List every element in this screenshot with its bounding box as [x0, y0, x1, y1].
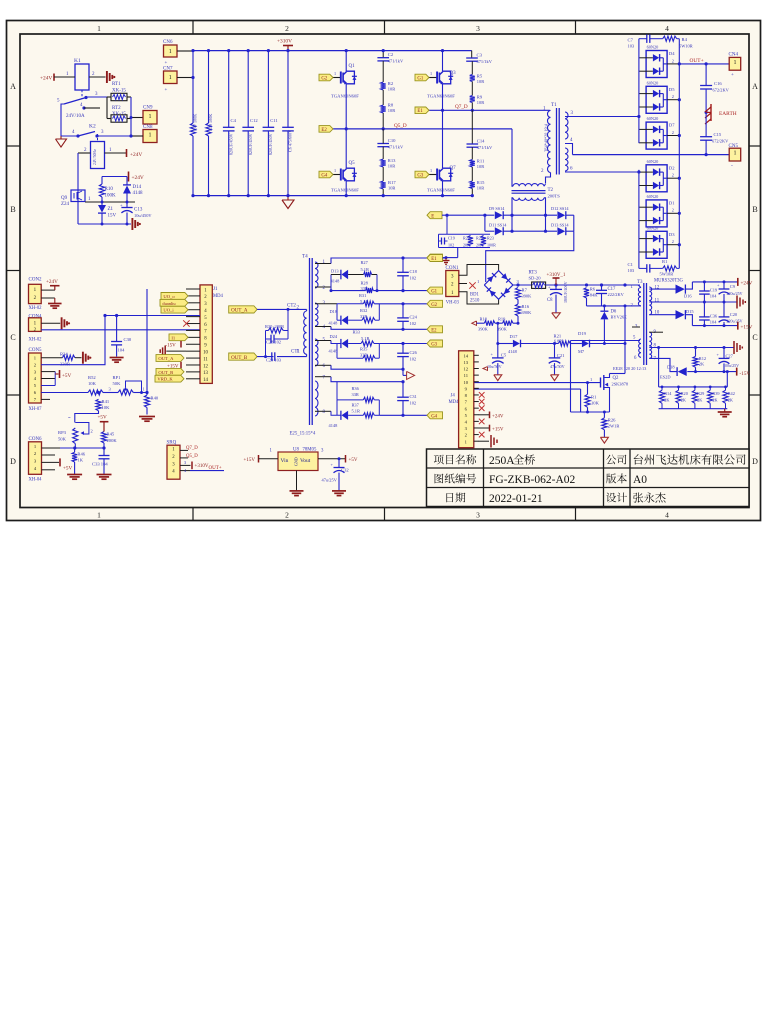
svg-text:J1: J1: [213, 287, 218, 292]
power +24V at J4 pin5: [479, 414, 490, 416]
svg-text:C: C: [10, 333, 15, 342]
svg-text:D1: D1: [669, 201, 675, 206]
svg-text:G4: G4: [431, 414, 437, 419]
svg-text:390K: 390K: [478, 327, 489, 332]
wire CON6 pin4: [42, 469, 56, 471]
T4 secondary S1: [315, 262, 318, 288]
svg-text:R37: R37: [352, 403, 360, 408]
svg-text:+15V: +15V: [741, 324, 753, 330]
svg-text:T4: T4: [302, 254, 308, 260]
rail E2 gate drive: [315, 326, 331, 328]
svg-text:=: =: [68, 415, 71, 420]
bleeder column R49 100K: [208, 51, 210, 123]
svg-text:-15V: -15V: [740, 371, 751, 377]
svg-text:C15: C15: [714, 132, 722, 137]
right bridge leg wire: [442, 51, 444, 72]
svg-text:4148: 4148: [331, 279, 341, 284]
power +24V at K2 coil: [126, 149, 128, 157]
wires CON5 pins 3-5 to +5V: [41, 371, 55, 373]
svg-text:G1: G1: [431, 290, 437, 295]
wire divider to D17 row: [497, 323, 499, 358]
svg-text:G2: G2: [321, 76, 327, 81]
svg-text:TGAN60N60F: TGAN60N60F: [331, 94, 359, 99]
svg-text:C33 104: C33 104: [92, 462, 108, 467]
right output bus of rectifiers: [678, 39, 680, 269]
capacitor C9 220u/25V: [723, 282, 725, 289]
IGBT Q1 TGAN60N60F: [333, 77, 341, 79]
svg-text:MD4: MD4: [213, 294, 224, 299]
rail G4 gate drive: [379, 414, 427, 416]
svg-text:G4: G4: [321, 173, 327, 178]
svg-text:2K: 2K: [664, 397, 670, 402]
MOSFET Q2 2SK3878: [600, 378, 602, 388]
power +24V at CON2: [41, 289, 55, 291]
svg-text:47u/50V: 47u/50V: [550, 364, 565, 369]
wire K1 pin1: [54, 76, 75, 78]
svg-text:33R: 33R: [352, 392, 359, 397]
dashed link K1 to contact: [81, 90, 83, 99]
svg-text:R25: R25: [476, 236, 483, 241]
svg-text:C: C: [752, 333, 757, 342]
svg-text:XH-07: XH-07: [29, 407, 43, 412]
net flag OUT_A mid: [229, 306, 257, 313]
svg-text:220u/25V: 220u/25V: [727, 318, 743, 323]
svg-text:1: 1: [149, 133, 152, 139]
net flag G3: [427, 340, 443, 347]
svg-text:10K: 10K: [591, 401, 600, 406]
wire R41 to RP3: [75, 411, 99, 423]
svg-text:200TS: 200TS: [548, 194, 561, 199]
svg-text:5.1R: 5.1R: [361, 336, 369, 341]
svg-text:10R: 10R: [477, 79, 484, 84]
svg-text:+15V: +15V: [244, 458, 256, 463]
right half-bridge output rail Q7_D: [429, 109, 550, 111]
capacitor C15 672/2KV: [705, 112, 707, 136]
svg-text:2W1R: 2W1R: [608, 424, 620, 429]
T4 primary winding: [304, 311, 307, 354]
svg-text:471/1kV: 471/1kV: [477, 59, 493, 64]
svg-text:C31: C31: [410, 394, 417, 399]
svg-text:R11: R11: [477, 159, 485, 164]
svg-text:C4: C4: [231, 118, 237, 123]
+24V output rail: [692, 281, 737, 283]
svg-text:K1: K1: [74, 58, 81, 64]
svg-text:1: 1: [733, 60, 736, 66]
svg-text:102: 102: [448, 243, 454, 248]
rail G3 to flag: [379, 343, 427, 345]
svg-text:2: 2: [285, 511, 289, 520]
net flag OUT_B mid: [229, 353, 257, 360]
svg-text:+24V: +24V: [492, 414, 504, 419]
svg-text:FG-ZKB-062-A02: FG-ZKB-062-A02: [489, 474, 575, 486]
svg-text:R28: R28: [361, 281, 369, 286]
capacitor C6 475UF/450V: [287, 51, 289, 128]
source wire from J4 pin9: [474, 388, 581, 390]
svg-text:60N20: 60N20: [647, 45, 659, 50]
net flag E1 aux: [427, 254, 443, 261]
bleeder rail top: [658, 348, 660, 387]
svg-text:390K: 390K: [522, 310, 533, 315]
wire CON6 pin1: [42, 447, 61, 449]
svg-text:10: 10: [203, 350, 208, 355]
capacitor C18 102: [401, 256, 404, 259]
svg-text:M7: M7: [578, 349, 585, 354]
svg-text:E1: E1: [417, 109, 423, 114]
wire T2 primary right: [544, 184, 546, 186]
svg-text:4148: 4148: [329, 321, 339, 326]
svg-text:RP3: RP3: [58, 430, 67, 435]
svg-text:2K: 2K: [697, 397, 703, 402]
svg-text:ES2D: ES2D: [660, 375, 671, 380]
wire RP3 to bias row: [74, 444, 76, 448]
snubber resistor R4 5W10R: [663, 36, 677, 41]
svg-text:UO_i: UO_i: [163, 308, 174, 313]
svg-text:2K: 2K: [681, 397, 687, 402]
wire CON5 pin2 up to J1 pin5 wire: [41, 316, 105, 365]
svg-text:250A: 250A: [489, 455, 515, 467]
svg-text:471/1kV: 471/1kV: [477, 145, 493, 150]
svg-text:OUT_A: OUT_A: [158, 356, 174, 361]
schematic sheet background: [7, 21, 761, 521]
rail G3 gate drive: [315, 340, 331, 342]
svg-text:C29 103: C29 103: [266, 358, 282, 363]
emitter flag E2: [319, 126, 333, 133]
svg-text:390K: 390K: [497, 327, 508, 332]
svg-text:60N20: 60N20: [647, 159, 659, 164]
reference arrow at R18: [472, 321, 477, 325]
no-connect X at CON1: [469, 282, 475, 288]
wire CON6 pin2: [42, 454, 56, 456]
capacitor C24 102: [402, 304, 404, 318]
wire T2 secondary right: [544, 198, 546, 231]
svg-text:Q5: Q5: [349, 161, 356, 166]
svg-text:R1: R1: [591, 395, 597, 400]
svg-text:10K: 10K: [88, 381, 97, 386]
svg-text:60N20: 60N20: [647, 194, 659, 199]
svg-text:R8: R8: [388, 103, 394, 108]
svg-text:180UF/400V: 180UF/400V: [563, 281, 568, 303]
svg-text:Q7_D: Q7_D: [455, 104, 468, 110]
ground at E1: [445, 258, 447, 261]
EARTH symbol: [705, 111, 708, 114]
reference marker triangle: [402, 369, 404, 375]
svg-text:SD-20: SD-20: [529, 275, 542, 280]
wire K1 pin2: [89, 76, 106, 78]
wire T2 secondary left: [512, 198, 513, 231]
wire left branch: [61, 104, 64, 136]
svg-text:D16: D16: [684, 294, 692, 299]
0V rail from T3 pin11: [649, 301, 737, 303]
capacitor C36 104: [703, 302, 705, 317]
svg-text:Q9: Q9: [61, 196, 68, 201]
svg-text:2510: 2510: [470, 299, 480, 304]
bottom DC bus: [193, 195, 472, 197]
svg-text:B: B: [752, 205, 757, 214]
svg-text:R20: R20: [681, 391, 688, 396]
wire to CN8: [131, 135, 143, 137]
output +5V wire: [318, 458, 346, 460]
svg-text:+5V: +5V: [98, 415, 108, 421]
svg-text:1: 1: [590, 377, 592, 382]
svg-text:102: 102: [410, 321, 417, 326]
svg-text:471/1kV: 471/1kV: [388, 59, 404, 64]
T3 pin9 stub: [649, 331, 663, 333]
svg-text:+: +: [165, 61, 168, 66]
svg-text:+24V: +24V: [741, 281, 753, 287]
svg-text:390K: 390K: [522, 294, 533, 299]
svg-text:OUT_B: OUT_B: [158, 370, 173, 375]
ground at K1 pin2: [106, 71, 108, 83]
svg-text:+: +: [165, 88, 168, 93]
capacitor C21 47u/50V: [554, 344, 556, 358]
svg-text:10R: 10R: [477, 164, 484, 169]
svg-text:12: 12: [655, 286, 660, 291]
diode D14 4148: [126, 177, 128, 186]
ground triangle at R26: [600, 437, 608, 443]
wire T2 primary left to Q5_D rail: [512, 129, 513, 186]
no-connect marks J4: [479, 392, 485, 398]
svg-text:13: 13: [464, 360, 469, 365]
svg-text:A: A: [752, 82, 758, 91]
svg-text:R9: R9: [477, 95, 483, 100]
svg-text:60N20: 60N20: [647, 225, 659, 230]
diode D17 4148: [498, 343, 513, 345]
svg-text:R6: R6: [590, 287, 596, 292]
svg-text:Vin: Vin: [281, 458, 289, 464]
svg-text:60N20: 60N20: [647, 116, 659, 121]
svg-text:Q3: Q3: [450, 71, 457, 76]
svg-text:+5V: +5V: [62, 373, 72, 379]
IGBT Q3 TGAN60N60F: [429, 77, 437, 79]
svg-text:R10: R10: [105, 187, 114, 192]
svg-text:R5: R5: [477, 74, 483, 79]
svg-text:T64*40*20 19:4: T64*40*20 19:4: [544, 123, 549, 152]
svg-text:24V/10A: 24V/10A: [66, 114, 85, 119]
optocoupler Q9 Z24: [71, 190, 85, 202]
wire CON4 pin2 to J1 pin7: [41, 329, 200, 331]
capacitor C31 102: [402, 382, 404, 398]
svg-text:D: D: [752, 457, 758, 466]
rail E1 gate drive: [315, 263, 331, 265]
svg-text:672/2KV: 672/2KV: [712, 139, 729, 144]
svg-text:104: 104: [710, 319, 717, 324]
wire rectified output to BD1: [486, 231, 574, 282]
svg-text:R24: R24: [463, 236, 470, 241]
svg-text:MURS320T3G: MURS320T3G: [654, 279, 684, 284]
svg-text:D11 SS14: D11 SS14: [489, 223, 507, 228]
bleeder resistors R14 R20 R29 R39 R42: [661, 386, 664, 389]
svg-text:D14: D14: [133, 185, 142, 190]
svg-text:CN9: CN9: [143, 106, 153, 111]
resistor R41 10K: [96, 399, 101, 411]
power -15V rail: [736, 368, 738, 376]
svg-text:10u/450V: 10u/450V: [134, 213, 152, 218]
svg-text:CON2: CON2: [29, 278, 43, 283]
svg-text:1: 1: [334, 168, 336, 173]
svg-text:102: 102: [410, 401, 417, 406]
svg-text:Q5_D: Q5_D: [394, 123, 407, 129]
svg-text:R47 100K: R47 100K: [193, 114, 198, 131]
svg-text:C24: C24: [410, 315, 418, 320]
svg-text:T2: T2: [548, 188, 554, 193]
svg-text:3: 3: [476, 24, 480, 33]
net flag G4: [427, 412, 443, 419]
svg-text:RP1: RP1: [113, 375, 122, 380]
net flag VRD_K: [155, 375, 184, 382]
capacitor C16 672/2KV: [705, 64, 707, 86]
svg-text:10R: 10R: [477, 186, 484, 191]
svg-text:1: 1: [430, 71, 432, 76]
capacitor C20 220u/25V: [723, 302, 725, 317]
svg-text:1: 1: [334, 71, 336, 76]
svg-text:R42: R42: [728, 391, 735, 396]
svg-text:10R: 10R: [477, 100, 484, 105]
svg-text:2K: 2K: [712, 397, 718, 402]
svg-text:C10: C10: [388, 138, 396, 143]
gate wire from J4 pin10: [474, 382, 601, 384]
current sense resistor R26 2W1R: [603, 412, 605, 418]
emitter flag E1 bridge: [415, 107, 429, 114]
svg-text:G3: G3: [431, 343, 437, 348]
svg-text:E1: E1: [431, 257, 437, 262]
left bridge leg wire: [345, 51, 347, 72]
svg-text:2: 2: [672, 208, 674, 213]
svg-text:2: 2: [672, 94, 674, 99]
svg-text:Vout: Vout: [300, 458, 311, 464]
svg-text:R27: R27: [361, 260, 369, 265]
svg-text:+24V: +24V: [46, 279, 58, 285]
power +5V at CON5: [55, 373, 58, 375]
wire J1 pin5: [105, 315, 200, 317]
capacitor C27 100u/25V: [723, 348, 725, 359]
snubber network C19 R24 R25 R23: [439, 233, 491, 235]
svg-text:R12: R12: [699, 356, 706, 361]
svg-text:104: 104: [118, 348, 126, 353]
relay coil K2 24V/50Hz: [91, 142, 105, 169]
svg-text:C18: C18: [410, 269, 418, 274]
junction row under RP3: [41, 447, 104, 449]
wire E1 to snubber: [443, 257, 458, 259]
svg-text:+24V: +24V: [130, 152, 142, 158]
resistor R6 84K: [584, 288, 589, 298]
capacitor C13 10u/450V: [126, 202, 128, 208]
svg-text:TGAN60N60F: TGAN60N60F: [427, 94, 455, 99]
svg-text:14: 14: [464, 353, 469, 358]
wire J1 pin1 down: [146, 289, 148, 393]
ground at opto circuit: [131, 218, 133, 230]
svg-text:C13: C13: [134, 208, 143, 213]
svg-text:D12 SS14: D12 SS14: [551, 206, 569, 211]
svg-text:D18: D18: [667, 365, 675, 370]
svg-text:C19: C19: [710, 288, 718, 293]
svg-text:G1: G1: [417, 76, 423, 81]
svg-text:Z24: Z24: [61, 202, 70, 207]
border row ticks: [7, 145, 21, 147]
capacitor C8 180UF/400V: [555, 285, 557, 289]
svg-text:+310V: +310V: [195, 464, 209, 469]
svg-text:VH-03: VH-03: [446, 301, 460, 306]
svg-text:103: 103: [628, 268, 635, 273]
ground at bottom bus: [287, 196, 289, 200]
title block table: [427, 449, 750, 507]
svg-text:10K: 10K: [102, 405, 111, 410]
ground at CON2: [41, 297, 55, 299]
opto circuit top wire +24V: [102, 176, 127, 178]
svg-text:G3: G3: [417, 173, 423, 178]
net flag E1 drive: [427, 255, 443, 262]
svg-text:TGAN60N60F: TGAN60N60F: [427, 188, 455, 193]
power +310V at SRQ: [180, 464, 191, 466]
svg-text:GND: GND: [294, 457, 299, 466]
svg-text:R49 100K: R49 100K: [208, 114, 213, 131]
svg-text:R35: R35: [360, 347, 368, 352]
svg-text:100R: 100R: [487, 243, 496, 248]
svg-text:100u/25V: 100u/25V: [723, 363, 739, 368]
ground at C32: [332, 490, 346, 492]
diode D6 BYV26E: [603, 306, 605, 311]
wire opto output row: [85, 201, 135, 203]
svg-text:50K: 50K: [58, 437, 67, 442]
svg-text:R7: R7: [522, 288, 528, 293]
ground at J1 pin10: [166, 350, 186, 352]
svg-text:R14: R14: [664, 391, 672, 396]
ground at C33: [97, 474, 112, 476]
svg-text:C36: C36: [710, 314, 718, 319]
capacitor C4 820UF/450V: [228, 51, 230, 128]
net flag OUT_B at J1: [156, 368, 184, 375]
ground at R34: [82, 352, 84, 364]
svg-text:R39: R39: [712, 391, 719, 396]
svg-text:C32: C32: [341, 468, 349, 473]
svg-text:CON5: CON5: [29, 348, 43, 353]
inner border frame: [20, 34, 749, 508]
bleeder rail bottom: [659, 408, 728, 410]
svg-text:5W10R: 5W10R: [660, 272, 674, 277]
svg-text:Q1: Q1: [349, 64, 356, 69]
svg-text:4: 4: [665, 511, 669, 520]
gate flag G1: [415, 74, 429, 81]
svg-text:Q2: Q2: [613, 376, 619, 381]
T3 primary winding: [638, 288, 641, 306]
svg-text:222/2KV: 222/2KV: [608, 292, 625, 297]
gate resistor R17b 10K: [585, 394, 590, 407]
svg-text:1: 1: [97, 24, 101, 33]
gate flag G2: [319, 74, 333, 81]
svg-text:-: -: [731, 163, 733, 169]
gate flag G4: [319, 171, 333, 178]
svg-text:E2: E2: [321, 128, 327, 133]
svg-text:R41: R41: [102, 399, 110, 404]
svg-text:R4: R4: [682, 37, 688, 42]
T4 secondary S2: [315, 303, 318, 326]
T3 pin1 wire: [638, 285, 641, 288]
svg-text:+24V: +24V: [40, 76, 52, 82]
wire aux switch node: [624, 344, 626, 374]
svg-text:11: 11: [464, 373, 469, 378]
svg-text:103: 103: [628, 44, 635, 49]
resistor R40: [146, 393, 148, 396]
snubber chain C2 R2 R8: [382, 51, 384, 58]
svg-text:+: +: [731, 73, 734, 78]
svg-text:R17: R17: [388, 180, 396, 185]
svg-text:10R: 10R: [388, 108, 395, 113]
T3 pin7 wire: [649, 358, 677, 371]
svg-text:D19: D19: [578, 331, 587, 336]
svg-text:4: 4: [665, 24, 669, 33]
capacitor C32 47u/25V: [338, 459, 340, 468]
net label Q7_D at SRQ: [180, 449, 188, 451]
svg-text:14: 14: [203, 378, 208, 383]
